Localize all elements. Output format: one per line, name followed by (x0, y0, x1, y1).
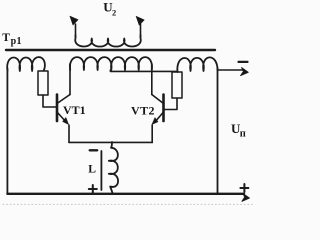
label Tp1 (transformer) (2, 32, 22, 47)
transistor VT2 (152, 95, 164, 143)
secondary lead left with arrow (70, 16, 78, 37)
wire VT2 base to R2 (165, 98, 178, 110)
label L (choke) (88, 162, 96, 175)
minus sign at choke (90, 149, 98, 151)
transformer core (6, 49, 215, 51)
svg-text:L: L (88, 162, 96, 175)
wire from W3 to R1 (42, 71, 44, 72)
resistor R2 (172, 72, 182, 98)
label VT2 (131, 104, 155, 118)
winding W1 (primary collector winding) (70, 57, 152, 70)
label VT1 (63, 103, 86, 117)
scan artifact dotted line at bottom (3, 203, 253, 205)
choke L winding (109, 142, 118, 193)
svg-text:п: п (240, 128, 246, 139)
resistor R1 (38, 71, 48, 95)
emitter rail (69, 141, 152, 143)
secondary lead right with arrow (136, 16, 144, 37)
VT2 collector wire (151, 64, 153, 95)
label U2 (secondary voltage) (103, 0, 116, 17)
minus sign top right (239, 61, 248, 63)
bottom rail (plus) (7, 194, 249, 202)
plus sign bottom right (240, 184, 248, 192)
label Un (supply voltage) (231, 121, 246, 139)
left vertical wire (6, 68, 8, 194)
VT1 collector wire (69, 64, 71, 95)
winding W4 (right base feedback winding) (177, 57, 217, 72)
svg-text:2: 2 (112, 7, 116, 17)
right vertical wire (to + rail) (217, 68, 219, 194)
svg-text:р1: р1 (11, 36, 22, 47)
center tap wire to R2 (110, 70, 177, 72)
transistor VT1 (57, 95, 70, 143)
plus sign at choke (89, 185, 97, 193)
winding W3 (left base feedback winding) (7, 57, 45, 71)
wire R1 bottom to VT1 base (43, 95, 56, 107)
choke L core bar (100, 151, 102, 190)
svg-text:VT1: VT1 (63, 103, 86, 117)
output line top (minus terminal) (218, 68, 249, 76)
winding W2 (top secondary, scallops) (75, 35, 141, 47)
svg-text:Т: Т (2, 32, 10, 44)
svg-text:VT2: VT2 (131, 104, 155, 118)
